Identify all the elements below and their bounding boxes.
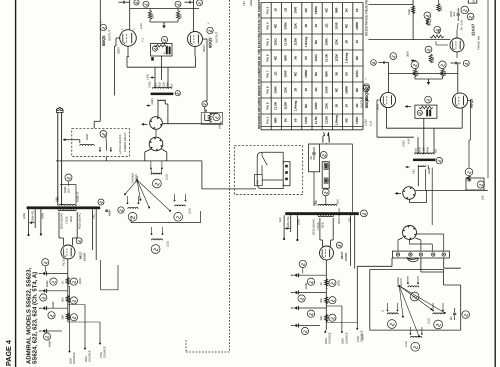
electrolytic C10 40MF right xyxy=(294,273,297,277)
svg-text:880: 880 xyxy=(284,55,288,60)
svg-text:115Ω: 115Ω xyxy=(355,70,359,78)
wire V2 bottom stub xyxy=(194,47,196,57)
wire T3 right side drops xyxy=(350,215,352,266)
svg-text:880: 880 xyxy=(324,71,328,76)
coupling network box left channel xyxy=(151,44,173,57)
terminal strip xyxy=(392,251,449,258)
resistor R7 filter 3 xyxy=(66,313,69,320)
contact pair bottom speaker right xyxy=(410,333,412,335)
svg-text:.1Ω: .1Ω xyxy=(324,23,328,29)
svg-text:RED: RED xyxy=(70,216,73,222)
test point 26 xyxy=(329,279,336,286)
svg-text:YEL: YEL xyxy=(314,200,317,206)
electrolytic C7 40MF xyxy=(42,306,45,310)
dashed chassis boundary stub xyxy=(185,340,187,352)
wire phase inv outputs down xyxy=(456,52,458,58)
speaker G voice coil xyxy=(433,313,444,314)
svg-text:.30: .30 xyxy=(304,24,308,29)
svg-text:RED 235VAC: RED 235VAC xyxy=(338,208,341,224)
arrow feed into relay box xyxy=(63,139,72,141)
test point A relay xyxy=(100,130,107,137)
test point 31 xyxy=(434,26,441,33)
svg-text:SOURCE: SOURCE xyxy=(104,346,107,358)
contact pair right speaker xyxy=(432,310,434,312)
box around left 10K network xyxy=(201,113,223,125)
wire 250V source right xyxy=(326,288,327,290)
svg-text:NC: NC xyxy=(314,71,318,76)
test point 28 xyxy=(329,314,336,321)
svg-text:25V: 25V xyxy=(67,188,70,193)
wire box center tap down xyxy=(161,56,163,67)
svg-text:1K: 1K xyxy=(320,282,323,285)
capacitor C15 grid left xyxy=(382,61,384,64)
svg-text:RED 235VAC: RED 235VAC xyxy=(61,213,64,229)
selector fan lines xyxy=(125,180,137,194)
svg-text:FIL 5V: FIL 5V xyxy=(63,258,66,266)
resistor R5 filter 1 xyxy=(66,278,69,285)
test point 1 xyxy=(134,0,139,5)
10K box right xyxy=(466,178,484,190)
wire plate riser L1 xyxy=(129,0,131,30)
svg-text:5Y3GT: 5Y3GT xyxy=(84,252,87,261)
svg-text:1000: 1000 xyxy=(335,22,339,29)
wire 255V source drop xyxy=(68,304,85,306)
svg-text:.022: .022 xyxy=(453,11,456,17)
resistor R22 56K in left box xyxy=(154,45,168,47)
svg-text:NC: NC xyxy=(304,103,308,108)
transformer T4 secondary winding xyxy=(418,165,426,166)
test point 9 speaker A xyxy=(153,179,162,188)
speaker B voice coil xyxy=(128,208,138,209)
svg-text:BRN: BRN xyxy=(427,147,430,153)
page left border line xyxy=(15,0,17,367)
svg-text:READINGS OBTAINED UNDER THE CO: READINGS OBTAINED UNDER THE CONDITION OF… xyxy=(257,0,261,129)
wire J1 to 10K network xyxy=(162,123,221,125)
resistor R23 100K on feed xyxy=(412,6,415,14)
contact pair speaker A xyxy=(150,168,152,170)
wire U-bottom under box xyxy=(126,57,128,68)
speaker F voice coil xyxy=(387,313,398,314)
svg-text:250V: 250V xyxy=(338,280,341,286)
wire strip feed from filter xyxy=(357,265,392,267)
test point 32 xyxy=(425,46,432,53)
svg-text:GRN-YEL: GRN-YEL xyxy=(287,216,290,228)
resistor R13 10K grid xyxy=(430,35,444,38)
svg-text:POWER RELAY: POWER RELAY xyxy=(124,132,127,152)
capacitor C3 near 10K xyxy=(204,109,207,111)
svg-text:180M: 180M xyxy=(355,22,359,30)
test point 44 speaker F xyxy=(388,320,397,329)
svg-text:11.5K: 11.5K xyxy=(324,53,328,62)
svg-text:3.2Ω: 3.2Ω xyxy=(189,208,192,214)
component box stub top right corner xyxy=(468,0,477,3)
svg-text:1000: 1000 xyxy=(284,70,288,77)
wire J4 leads xyxy=(398,238,403,241)
wire cathode V1 down xyxy=(116,37,120,39)
wire T1 primary feeds xyxy=(154,67,156,88)
resistor R16 30K screen xyxy=(441,69,444,77)
capacitor C4 at T2 right xyxy=(105,209,108,211)
svg-text:YEL: YEL xyxy=(412,168,415,174)
svg-text:60: 60 xyxy=(294,118,298,122)
wire T2 right side drops xyxy=(91,209,93,250)
svg-text:5Y3GT: 5Y3GT xyxy=(345,252,348,261)
electrolytic C5 40MF xyxy=(42,272,45,276)
T2 heater wires left with labels xyxy=(28,209,30,234)
svg-text:PH: PH xyxy=(257,180,260,184)
transformer T2 primary winding xyxy=(59,204,75,205)
svg-text:1000: 1000 xyxy=(294,7,298,14)
wire bottom rail right channel xyxy=(386,127,462,129)
test point 37 screen R xyxy=(439,61,447,69)
electrolytic C13 40MF right bottom xyxy=(294,324,297,328)
svg-text:1K: 1K xyxy=(62,281,65,284)
ground arrow top left channel xyxy=(149,20,151,23)
tube V5 12AX7 phase inverter xyxy=(450,38,464,52)
svg-text:6BQ5: 6BQ5 xyxy=(469,99,473,108)
svg-text:6BQ5: 6BQ5 xyxy=(101,35,106,46)
svg-text:Y 2: Y 2 xyxy=(142,38,145,42)
svg-text:245V: 245V xyxy=(342,338,345,344)
resistor R9 right filter 2 xyxy=(325,297,328,304)
test point 18 xyxy=(70,297,77,304)
svg-text:112M: 112M xyxy=(284,102,288,110)
tube V4 5Y3GT rectifier right xyxy=(320,246,334,260)
svg-text:1.8meg: 1.8meg xyxy=(345,53,349,64)
svg-text:+25V: +25V xyxy=(147,73,150,80)
svg-text:Pin 3: Pin 3 xyxy=(265,6,269,13)
resistor R3 4700 in box (dark bars) xyxy=(166,47,168,55)
wire T4 primary feeds xyxy=(417,137,419,154)
wire T4 secondary down xyxy=(417,165,419,186)
test point 25 xyxy=(307,278,314,285)
ground arrow right channel xyxy=(414,77,416,80)
svg-text:30K: 30K xyxy=(443,71,447,76)
svg-text:270V: 270V xyxy=(100,352,103,358)
svg-text:PAGE 4: PAGE 4 xyxy=(4,340,13,366)
speaker C voice coil xyxy=(175,205,185,206)
svg-text:60: 60 xyxy=(345,72,349,76)
svg-text:A-3V: A-3V xyxy=(140,23,143,29)
svg-text:LT150: LT150 xyxy=(65,216,68,224)
svg-text:11.5K: 11.5K xyxy=(273,101,277,110)
wire cathode net xyxy=(60,184,76,186)
svg-text:11.8: 11.8 xyxy=(370,120,373,126)
svg-text:GRN: GRN xyxy=(250,0,253,6)
electrolytic C12 40MF right xyxy=(294,306,297,310)
svg-text:NO: NO xyxy=(435,149,438,153)
test point 12 far left speaker xyxy=(118,207,124,213)
svg-text:JACKS: JACKS xyxy=(400,278,403,287)
tube V1 6BQ5 left xyxy=(120,30,137,47)
speaker E voice coil xyxy=(408,286,419,287)
svg-text:255V: 255V xyxy=(85,356,88,362)
contact row speaker C xyxy=(174,200,176,202)
svg-text:SOURCE: SOURCE xyxy=(73,352,76,364)
svg-text:RED: RED xyxy=(322,222,325,228)
svg-text:30K: 30K xyxy=(62,315,65,320)
resistor R17 56K in box xyxy=(419,106,433,108)
svg-text:115Ω: 115Ω xyxy=(273,38,277,46)
wire V2 jog to test point xyxy=(205,100,207,102)
test point 13 speaker D xyxy=(151,245,160,254)
resistor R19 vert 10K right xyxy=(468,176,471,182)
svg-text:30K: 30K xyxy=(320,298,323,303)
dashed box tape jack xyxy=(234,145,302,194)
svg-text:OUTPUT: OUTPUT xyxy=(361,97,364,108)
svg-text:BLK: BLK xyxy=(279,217,282,222)
resistor R10 right filter 3 xyxy=(325,315,328,322)
svg-text:1.8meg: 1.8meg xyxy=(335,115,339,126)
test point 48 cathode cap xyxy=(65,174,72,181)
resistor R4 10K left jack network xyxy=(208,114,211,123)
resistor R12 1meg xyxy=(426,19,429,26)
transformer T1 core bar xyxy=(151,93,174,96)
pointer flag on terminal strip xyxy=(407,258,418,262)
capacitor C9 in switch box xyxy=(312,152,315,154)
svg-text:365V: 365V xyxy=(406,51,409,57)
tube V6 6BQ5 right channel A xyxy=(380,92,395,107)
svg-text:SOURCE: SOURCE xyxy=(89,350,92,362)
test point 8 10K xyxy=(213,114,220,121)
coupling network box right channel xyxy=(415,105,437,118)
svg-text:GRN: GRN xyxy=(298,219,301,225)
test point 33 xyxy=(390,53,397,60)
test point 45 speaker G xyxy=(434,320,443,329)
arrow at 365V xyxy=(411,60,416,62)
wire feed from table to phase inv xyxy=(369,3,414,5)
wire box center tap down xyxy=(423,118,425,128)
wire V2 right side down xyxy=(203,38,208,40)
svg-text:10K: 10K xyxy=(219,124,222,129)
svg-text:NC: NC xyxy=(273,55,277,60)
test point 29 xyxy=(424,12,431,19)
test point 27 xyxy=(329,297,336,304)
speaker H voice coil xyxy=(410,336,422,337)
test point 41 10K right xyxy=(465,168,473,176)
component blob below box xyxy=(151,57,154,60)
svg-text:NC: NC xyxy=(345,23,349,28)
svg-text:22K: 22K xyxy=(294,22,298,28)
wire J2 right leg xyxy=(162,149,167,152)
svg-text:250V: 250V xyxy=(362,334,365,340)
svg-text:.10: .10 xyxy=(304,88,308,93)
wire T1 secondary to socket xyxy=(157,100,159,117)
wire V7 right to 10K network xyxy=(468,100,471,102)
svg-text:30K: 30K xyxy=(179,14,183,19)
svg-text:NC: NC xyxy=(345,117,349,122)
svg-text:880: 880 xyxy=(273,117,277,122)
svg-text:RED: RED xyxy=(419,147,422,153)
svg-text:LATCH ON-OFF: LATCH ON-OFF xyxy=(119,134,122,154)
tape box PH jack xyxy=(255,174,263,185)
capacitor C17 speaker net xyxy=(453,312,456,314)
test point 10 speaker B xyxy=(128,212,137,221)
wire cathode drop to T4 xyxy=(377,99,380,101)
svg-text:100K: 100K xyxy=(355,116,359,124)
svg-text:.10: .10 xyxy=(273,8,277,13)
capacitor C2 grid coupling right xyxy=(188,1,190,4)
wire 270V source drop xyxy=(68,321,100,323)
resistor R6 filter 2 xyxy=(66,296,69,303)
arrow into J3 xyxy=(395,192,401,194)
svg-text:.30: .30 xyxy=(294,88,298,93)
test point 47 speaker cap xyxy=(462,311,470,319)
svg-text:3.2Ω: 3.2Ω xyxy=(427,318,430,324)
test point 43 speaker E xyxy=(410,292,419,301)
wire plate riser L2 xyxy=(193,0,195,32)
wire right bus from top to 10K box xyxy=(487,0,489,178)
svg-text:3.2Ω: 3.2Ω xyxy=(166,174,169,180)
test point 35 xyxy=(463,60,469,66)
svg-text:12AX7: 12AX7 xyxy=(471,23,476,36)
svg-text:180M: 180M xyxy=(345,86,349,94)
table cell values xyxy=(273,6,359,126)
svg-text:RED 235VAC: RED 235VAC xyxy=(313,219,316,235)
tape box connector strip xyxy=(283,162,290,186)
svg-text:365V: 365V xyxy=(202,45,206,52)
T3 heater wires left with labels xyxy=(283,215,285,238)
relay K1 coil xyxy=(80,144,95,145)
svg-text:5S624, 622, 623, 624 (Ch. 5T4,: 5S624, 622, 623, 624 (Ch. 5T4, A) xyxy=(32,272,39,364)
svg-text:3.2Ω: 3.2Ω xyxy=(167,241,170,247)
svg-text:10K: 10K xyxy=(482,195,485,200)
socket J4 (6-pin) xyxy=(403,226,417,240)
tape box switch arm xyxy=(261,152,263,156)
AC plug symbol xyxy=(323,132,329,142)
svg-text:60: 60 xyxy=(355,8,359,12)
transformer T4 primary winding xyxy=(415,153,434,154)
wire plug to transformer xyxy=(325,143,327,144)
svg-text:PHASE INV: PHASE INV xyxy=(478,35,481,50)
wire J1 to J2 link xyxy=(155,129,157,137)
svg-text:NC: NC xyxy=(314,39,318,44)
socket J3 right (4-pin) xyxy=(403,187,416,200)
svg-text:22K: 22K xyxy=(335,38,339,44)
svg-text:.1Ω: .1Ω xyxy=(273,71,277,77)
svg-text:BLK: BLK xyxy=(337,199,340,204)
svg-text:ADMIRAL MODELS 5S622, 5S623,: ADMIRAL MODELS 5S622, 5S623, xyxy=(26,267,33,364)
wire top rail right channel xyxy=(389,73,458,75)
svg-text:250V: 250V xyxy=(79,278,82,284)
wire plate rail phase inv xyxy=(369,39,451,41)
svg-text:RED 235VAC: RED 235VAC xyxy=(79,213,82,229)
selector fan right xyxy=(399,286,431,309)
wire T3 HV to rectifier xyxy=(319,218,321,240)
test point 23 at rectifier right xyxy=(336,242,342,248)
wire J3 to right bus xyxy=(415,189,488,191)
tube V7 6BQ5 right channel B xyxy=(452,93,467,108)
svg-text:400V: 400V xyxy=(450,11,453,17)
tube V2 6BQ5 right-of-pair xyxy=(188,32,203,47)
svg-text:112M: 112M xyxy=(335,54,339,62)
speaker A voice coil xyxy=(151,173,161,174)
svg-text:30K: 30K xyxy=(62,297,65,302)
wire B+ feed down to relay xyxy=(99,0,101,121)
svg-text:20K: 20K xyxy=(440,6,443,11)
svg-text:RECT: RECT xyxy=(80,251,83,259)
test point 15 at rectifier xyxy=(76,238,82,244)
svg-text:.30: .30 xyxy=(335,104,339,109)
svg-text:NC: NC xyxy=(304,7,308,12)
svg-text:BLU: BLU xyxy=(415,148,418,153)
svg-text:112M: 112M xyxy=(294,38,298,46)
svg-text:.1Ω: .1Ω xyxy=(355,103,359,109)
transformer T3 primary winding xyxy=(318,204,337,205)
test point 42 in 10K box xyxy=(477,181,484,188)
svg-text:SOURCE: SOURCE xyxy=(345,332,348,344)
speaker D voice coil xyxy=(152,239,163,240)
svg-text:2002: 2002 xyxy=(86,134,89,140)
speaker return wire xyxy=(131,222,201,224)
test point 36 screen L xyxy=(411,61,419,69)
wire T2 HV to rectifier xyxy=(58,212,60,238)
test point 19 xyxy=(70,314,77,321)
svg-text:.10: .10 xyxy=(355,40,359,45)
svg-text:250V: 250V xyxy=(69,358,72,364)
transformer T3 secondary winding xyxy=(318,215,334,216)
svg-text:40MF: 40MF xyxy=(52,301,55,308)
wire 245V source right xyxy=(326,305,342,307)
wire B+ bus right filter xyxy=(325,260,327,330)
AC interlock cable twin lead xyxy=(57,113,59,206)
test point 6 right of T1 xyxy=(175,91,180,96)
svg-text:22K: 22K xyxy=(324,102,328,108)
svg-text:1.8meg: 1.8meg xyxy=(304,37,308,48)
svg-text:100K: 100K xyxy=(273,86,277,94)
svg-text:30K: 30K xyxy=(320,316,323,321)
test point above left coupling box xyxy=(161,37,167,43)
svg-text:112M: 112M xyxy=(324,116,328,124)
relay contacts xyxy=(99,150,101,152)
svg-text:370Ω: 370Ω xyxy=(149,82,152,89)
svg-text:JI: JI xyxy=(382,310,385,312)
wire bus right drop xyxy=(201,161,203,189)
wire V1 bottom stub xyxy=(127,46,129,56)
transformer T2 secondary winding xyxy=(58,209,76,210)
svg-text:1.8meg: 1.8meg xyxy=(294,101,298,112)
resistor R15 30K screen xyxy=(413,69,416,77)
transformer T3 core bar xyxy=(285,212,359,215)
svg-text:180M: 180M xyxy=(314,6,318,14)
svg-text:Pin 9: Pin 9 xyxy=(265,102,269,109)
svg-text:100K: 100K xyxy=(284,22,288,30)
svg-text:Pin 4: Pin 4 xyxy=(265,22,269,29)
tube V3 5Y3GT rectifier xyxy=(61,245,75,259)
svg-text:115Ω: 115Ω xyxy=(304,116,308,124)
svg-text:40MF: 40MF xyxy=(46,280,49,287)
svg-text:Pin 8: Pin 8 xyxy=(265,86,269,93)
svg-text:NC: NC xyxy=(355,55,359,60)
test point 21 below interlock xyxy=(322,189,329,196)
interlock rect xyxy=(322,162,329,189)
svg-text:YEL: YEL xyxy=(93,213,96,219)
svg-text:SOURCE: SOURCE xyxy=(329,332,332,344)
wire plate riser R2 xyxy=(457,63,459,93)
svg-text:6BQ5: 6BQ5 xyxy=(364,97,369,108)
svg-text:46MF: 46MF xyxy=(109,209,112,216)
test point 39 inside box xyxy=(417,110,422,115)
svg-text:270V: 270V xyxy=(357,336,360,342)
svg-text:Pin 1: Pin 1 xyxy=(265,116,269,123)
svg-text:RESISTANCE READINGS: RESISTANCE READINGS xyxy=(365,0,369,36)
svg-text:1000: 1000 xyxy=(324,86,328,93)
svg-text:NC: NC xyxy=(273,23,277,28)
switch box S1 line filter xyxy=(309,144,320,172)
capacitor C1 grid coupling left xyxy=(122,1,124,4)
test point 16 xyxy=(50,278,57,285)
test point 14 right of T2 xyxy=(98,199,104,205)
